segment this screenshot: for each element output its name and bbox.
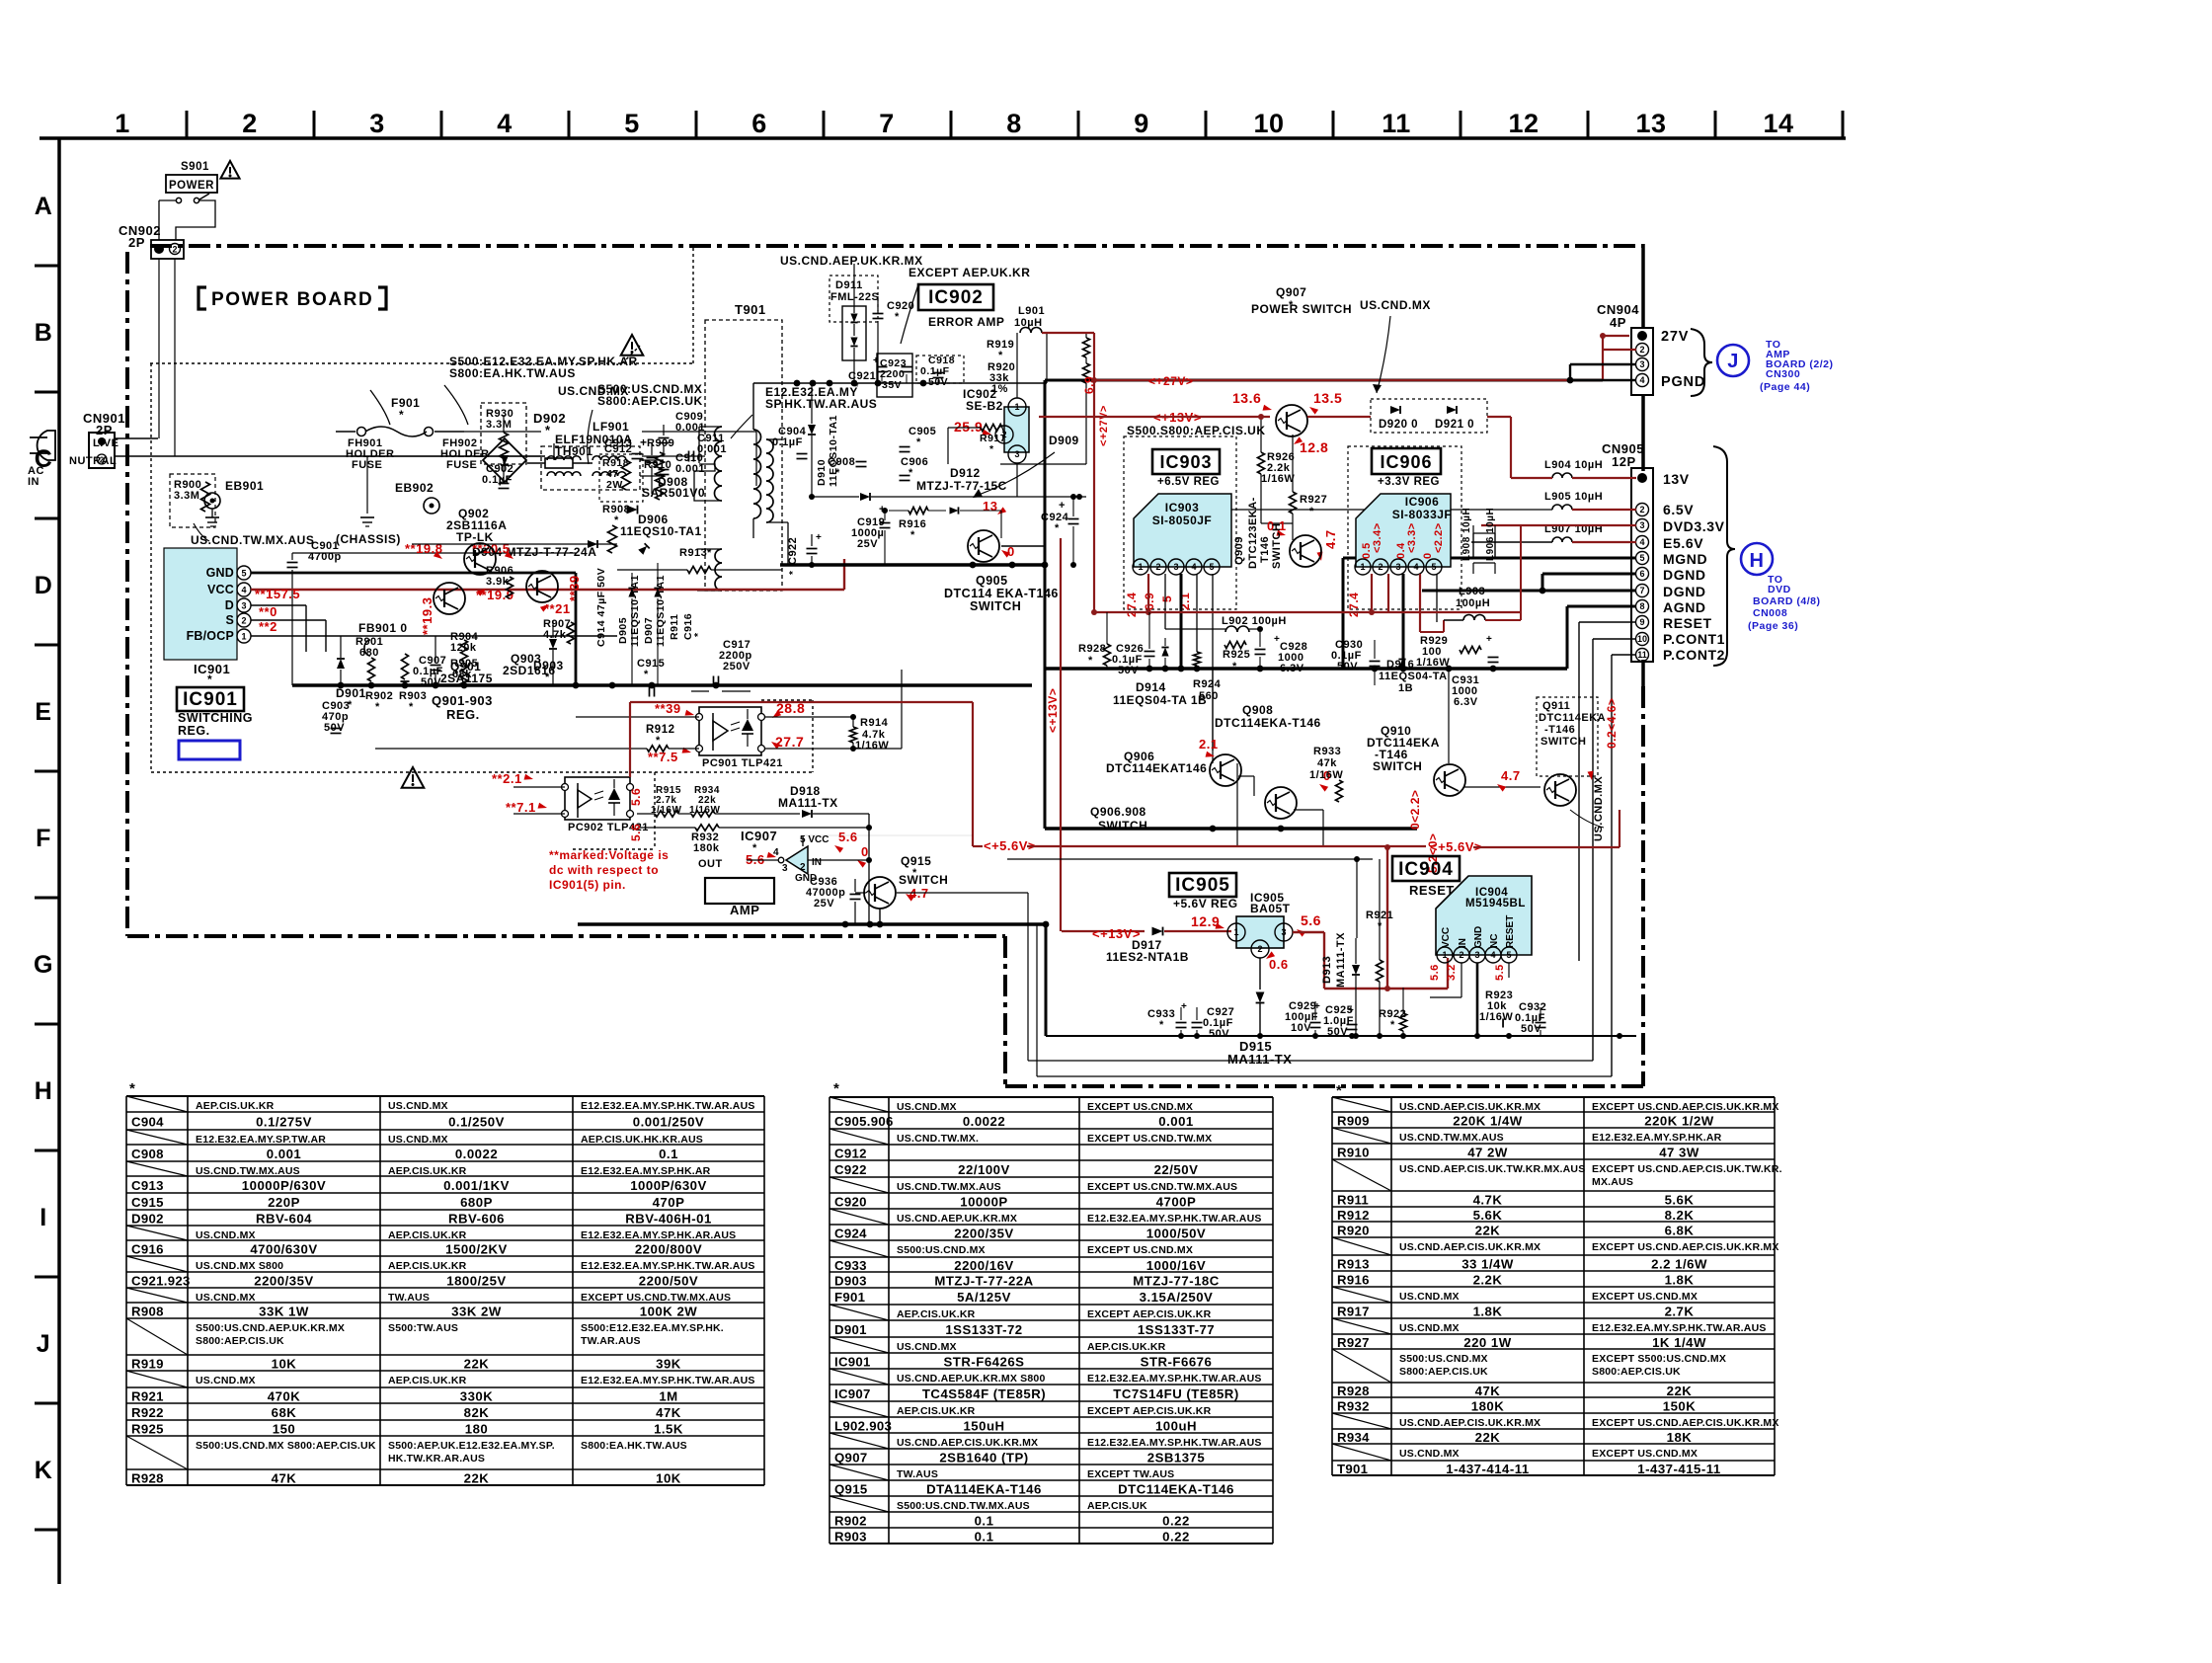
svg-text:5.6K: 5.6K [1665,1193,1695,1208]
svg-text:*: * [910,529,915,541]
svg-text:MX.AUS: MX.AUS [1592,1176,1633,1188]
svg-text:FB901 0: FB901 0 [358,621,408,635]
svg-text:S500:US.CND.AEP.UK.KR.MX: S500:US.CND.AEP.UK.KR.MX [196,1322,345,1334]
svg-text:R911: R911 [1337,1193,1369,1208]
svg-text:*: * [1088,655,1093,667]
svg-text:C921: C921 [848,370,876,382]
svg-text:3: 3 [1639,359,1644,369]
svg-text:47K: 47K [272,1471,297,1486]
svg-text:5.6: 5.6 [629,788,643,806]
svg-text:25.9: 25.9 [954,419,983,435]
svg-text:5.6: 5.6 [1301,912,1321,928]
svg-text:33K 2W: 33K 2W [451,1305,502,1319]
svg-text:SI-8050JF: SI-8050JF [1152,514,1213,527]
svg-text:*: * [854,381,859,393]
svg-text:E12.E32.EA.MY.SP.HK.TW.AR.AUS: E12.E32.EA.MY.SP.HK.TW.AR.AUS [581,1375,755,1386]
svg-text:R902: R902 [834,1514,867,1529]
svg-text:5 VCC: 5 VCC [800,834,829,845]
svg-text:1: 1 [1442,950,1447,960]
svg-text:27.4: 27.4 [1125,593,1139,617]
svg-text:MA111-TX: MA111-TX [778,796,838,810]
svg-text:S800:EA.HK.TW.AUS: S800:EA.HK.TW.AUS [581,1440,687,1452]
svg-text:K: K [35,1457,53,1484]
svg-text:C920: C920 [887,300,914,312]
svg-text:*: * [1390,1019,1395,1031]
svg-text:SWITCHING: SWITCHING [178,711,253,725]
svg-text:2: 2 [1378,562,1382,572]
svg-text:L902 100µH: L902 100µH [1222,615,1287,627]
svg-text:US.CND.MX: US.CND.MX [897,1341,957,1353]
svg-text:10K: 10K [656,1471,681,1486]
svg-text:SAR501V0: SAR501V0 [642,486,705,500]
svg-text:68K: 68K [272,1405,297,1420]
svg-text:1M: 1M [659,1389,677,1404]
svg-text:US.CND.AEP.CIS.UK.KR.MX: US.CND.AEP.CIS.UK.KR.MX [897,1437,1038,1449]
svg-text:dc with respect to: dc with respect to [549,863,659,877]
svg-text:D909: D909 [1049,434,1079,447]
svg-text:2200/50V: 2200/50V [639,1274,698,1289]
svg-text:AMP: AMP [730,903,759,917]
svg-text:C904: C904 [131,1115,164,1130]
svg-text:US.CND.MX: US.CND.MX [1399,1322,1460,1334]
svg-text:<3.4>: <3.4> [1372,522,1383,553]
svg-text:R925: R925 [131,1422,164,1437]
svg-text:*: * [545,672,550,683]
svg-text:R913: R913 [679,547,707,559]
svg-text:C915: C915 [131,1195,164,1210]
svg-text:22K: 22K [1475,1224,1501,1238]
svg-text:6.5V: 6.5V [1663,502,1694,517]
svg-text:10V: 10V [1291,1022,1311,1034]
svg-text:D920 0: D920 0 [1379,419,1418,431]
svg-text:+: + [1181,1001,1187,1012]
svg-text:11EQS04-TA 1B: 11EQS04-TA 1B [1113,693,1207,707]
svg-text:CN008: CN008 [1753,607,1787,619]
svg-text:S500.S800:AEP.CIS.UK: S500.S800:AEP.CIS.UK [1127,424,1266,437]
svg-text:US.CND.MX: US.CND.MX [1593,776,1605,841]
svg-text:(Page 44): (Page 44) [1760,381,1810,393]
svg-text:+3.3V REG: +3.3V REG [1378,476,1440,488]
svg-text:0.1/250V: 0.1/250V [448,1115,505,1130]
svg-text:AGND: AGND [1663,599,1706,615]
svg-text:0<2.2>: 0<2.2> [1408,790,1422,830]
svg-text:E12.E32.EA.MY.SP.HK.TW.AR.AUS: E12.E32.EA.MY.SP.HK.TW.AR.AUS [1592,1322,1767,1334]
svg-text:D905: D905 [617,617,629,644]
svg-text:0.1/275V: 0.1/275V [256,1115,312,1130]
svg-text:**157.5: **157.5 [255,587,300,601]
svg-text:13: 13 [983,499,997,514]
svg-text:<2.2>: <2.2> [1433,522,1445,553]
svg-text:<3.3>: <3.3> [1406,522,1418,553]
svg-text:S800:AEP.CIS.UK: S800:AEP.CIS.UK [1399,1366,1488,1378]
svg-text:F901: F901 [834,1290,865,1305]
svg-text:D901: D901 [834,1322,867,1337]
svg-text:EXCEPT US.CND.MX: EXCEPT US.CND.MX [1592,1291,1698,1303]
svg-text:R919: R919 [131,1357,164,1372]
svg-text:**19.3: **19.3 [420,597,434,635]
svg-text:FML-22S: FML-22S [830,291,879,303]
svg-text:13.6: 13.6 [1232,390,1261,406]
svg-text:D910: D910 [816,459,828,486]
svg-text:S901: S901 [181,161,209,173]
svg-text:4P: 4P [1610,315,1626,330]
svg-text:Q906.908: Q906.908 [1090,805,1146,819]
svg-text:**7.1: **7.1 [506,800,536,815]
svg-text:Q915: Q915 [834,1482,867,1497]
svg-text:C906: C906 [901,456,928,468]
svg-text:SWITCH: SWITCH [1373,759,1422,773]
svg-text:12: 12 [1508,109,1539,138]
svg-text:R909: R909 [647,437,674,449]
svg-text:100µH: 100µH [1456,597,1490,609]
svg-text:4.7k: 4.7k [543,629,567,641]
svg-text:E12.E32.EA.MY.SP.HK.TW.AR.AUS: E12.E32.EA.MY.SP.HK.TW.AR.AUS [581,1100,755,1112]
svg-text:8: 8 [1006,109,1022,138]
svg-text:2200/35V: 2200/35V [254,1274,313,1289]
svg-text:5: 5 [1431,562,1436,572]
svg-text:0.001/250V: 0.001/250V [633,1115,704,1130]
svg-text:5: 5 [1506,950,1511,960]
svg-text:50V: 50V [1327,1026,1348,1038]
svg-text:3.2: 3.2 [1446,964,1458,981]
svg-text:R927: R927 [1300,494,1327,506]
svg-text:**2: **2 [259,619,277,634]
svg-text:250V: 250V [723,661,750,673]
svg-text:47 2W: 47 2W [1467,1146,1508,1160]
svg-text:1-437-414-11: 1-437-414-11 [1446,1462,1529,1476]
svg-text:IC904: IC904 [1398,859,1454,880]
svg-text:R911: R911 [669,613,680,640]
svg-text:S500:US.CND.MX: S500:US.CND.MX [1399,1353,1488,1365]
svg-text:DTC114 EKA-T146: DTC114 EKA-T146 [944,587,1059,600]
svg-text:DTC114EKA-T146: DTC114EKA-T146 [1118,1482,1234,1497]
svg-text:27V: 27V [1661,329,1689,345]
svg-text:11EQS10-TA1: 11EQS10-TA1 [828,415,839,487]
svg-text:D907: D907 [643,617,655,644]
svg-text:H: H [35,1077,53,1105]
svg-text:NUTRAL: NUTRAL [69,455,117,467]
svg-text:*: * [614,515,619,526]
svg-text:AEP.CIS.UK.KR: AEP.CIS.UK.KR [196,1100,275,1112]
svg-text:SWITCH: SWITCH [1540,736,1586,748]
svg-text:2: 2 [241,615,246,625]
svg-text:*: * [833,1080,839,1097]
svg-text:220K 1/2W: 220K 1/2W [1644,1114,1714,1129]
svg-text:ERROR AMP: ERROR AMP [928,315,1004,329]
svg-text:E12.E32.EA.MY.SP.HK.TW.AR.AUS: E12.E32.EA.MY.SP.HK.TW.AR.AUS [1087,1213,1262,1225]
svg-text:BA05T: BA05T [1250,902,1291,915]
svg-text:G: G [34,951,53,979]
svg-text:5.6: 5.6 [629,824,643,841]
svg-text:IC901(5) pin.: IC901(5) pin. [549,878,626,892]
svg-text:AEP.CIS.UK.KR: AEP.CIS.UK.KR [897,1405,976,1417]
svg-text:680: 680 [359,647,379,659]
svg-text:MA111-TX: MA111-TX [1335,932,1347,988]
svg-text:<+27V>: <+27V> [1148,374,1193,388]
svg-text:2: 2 [1155,562,1160,572]
svg-text:VCC: VCC [1441,927,1452,948]
svg-text:1: 1 [115,109,130,138]
svg-text:*: * [1309,506,1314,517]
svg-text:35V: 35V [882,379,902,391]
svg-text:IN: IN [28,476,39,488]
svg-text:IC903: IC903 [1165,501,1200,515]
svg-text:1/16W: 1/16W [1261,473,1295,485]
svg-text:SE-B2: SE-B2 [966,399,1003,413]
svg-text:1: 1 [241,631,246,641]
svg-text:2: 2 [1257,944,1262,954]
svg-text:*: * [692,632,704,637]
svg-text:1/16W: 1/16W [1416,657,1450,669]
svg-text:4.7: 4.7 [1323,529,1338,549]
svg-text:13.5: 13.5 [1313,390,1342,406]
svg-text:4: 4 [241,585,246,594]
svg-text:+6.5V REG: +6.5V REG [1157,476,1220,488]
svg-text:R916: R916 [1337,1273,1370,1288]
svg-text:SWITCH: SWITCH [970,599,1021,613]
svg-text:1: 1 [1014,402,1019,412]
svg-text:E12.E32.EA.MY.SP.TW.AR: E12.E32.EA.MY.SP.TW.AR [196,1134,326,1146]
svg-text:D901: D901 [336,686,366,700]
svg-text:220P: 220P [268,1195,300,1210]
svg-text:POWER SWITCH: POWER SWITCH [1251,302,1352,316]
svg-text:*: * [409,701,414,713]
svg-text:50V: 50V [1337,661,1358,673]
svg-text:*: * [895,311,900,323]
svg-text:18K: 18K [1667,1430,1693,1445]
svg-text:FUSE: FUSE [446,459,477,471]
svg-text:H: H [1750,550,1765,572]
svg-text:2P: 2P [128,235,145,250]
svg-text:1/16W: 1/16W [855,740,889,752]
svg-text:IC906: IC906 [1380,452,1432,472]
svg-text:**39: **39 [567,575,582,601]
svg-text:US.CND.MX: US.CND.MX [388,1100,448,1112]
svg-text:R912: R912 [1337,1208,1370,1223]
svg-text:*: * [375,701,380,713]
svg-text:1SS133T-72: 1SS133T-72 [945,1322,1022,1337]
svg-text:MTZJ-T-77-15C: MTZJ-T-77-15C [916,479,1007,493]
svg-text:6.8K: 6.8K [1665,1224,1695,1238]
svg-text:R928: R928 [1078,643,1106,655]
svg-text:S500:US.CND.MX S800:AEP.CIS.U: S500:US.CND.MX S800:AEP.CIS.UK [196,1440,376,1452]
svg-text:*: * [1159,1019,1164,1031]
svg-text:<+13V>: <+13V> [1046,688,1060,733]
svg-text:**0: **0 [259,604,277,619]
svg-text:S500:AEP.UK.E12.E32.EA.MY.SP.: S500:AEP.UK.E12.E32.EA.MY.SP. [388,1440,555,1452]
svg-text:22/100V: 22/100V [958,1162,1010,1177]
svg-text:2: 2 [1639,505,1644,515]
svg-text:STR-F6676: STR-F6676 [1141,1355,1213,1370]
svg-text:E12.E32.EA.MY.SP.HK.AR: E12.E32.EA.MY.SP.HK.AR [1592,1132,1722,1144]
svg-text:DVD: DVD [1768,584,1791,595]
svg-text:C920: C920 [834,1195,867,1210]
svg-text:3: 3 [241,600,246,610]
svg-text:RESET: RESET [1663,615,1712,631]
svg-text:2: 2 [800,862,806,873]
svg-text:D914: D914 [1136,680,1166,694]
svg-text:180K: 180K [1471,1399,1505,1414]
svg-text:3: 3 [782,863,788,874]
svg-text:STR-F6426S: STR-F6426S [944,1355,1025,1370]
svg-text:1000P/630V: 1000P/630V [630,1178,707,1193]
svg-text:US.CND.MX S800: US.CND.MX S800 [196,1260,283,1272]
svg-text:(Page 36): (Page 36) [1748,620,1798,632]
svg-text:**21: **21 [544,601,571,616]
svg-text:E: E [35,698,51,726]
svg-text:AEP.CIS.UK.HK.KR.AUS: AEP.CIS.UK.HK.KR.AUS [581,1134,703,1146]
svg-text:C914 47µF 50V: C914 47µF 50V [595,568,607,647]
svg-text:5.5: 5.5 [1494,964,1506,981]
svg-text:0.001: 0.001 [675,463,705,475]
svg-text:US.CND.TW.MX.AUS: US.CND.TW.MX.AUS [191,533,314,547]
svg-text:4: 4 [1639,375,1644,385]
svg-text:REG.: REG. [178,724,210,738]
svg-text:US.CND.MX: US.CND.MX [1360,298,1431,312]
svg-text:3: 3 [1173,562,1178,572]
svg-text:2200/35V: 2200/35V [954,1227,1013,1241]
svg-text:11EQS10-TA1: 11EQS10-TA1 [620,524,702,538]
svg-text:D902: D902 [131,1212,164,1227]
svg-text:AEP.CIS.UK.KR: AEP.CIS.UK.KR [388,1165,467,1177]
svg-text:50V: 50V [1521,1023,1541,1035]
svg-text:50V: 50V [421,676,441,688]
svg-text:US.CND.MX: US.CND.MX [196,1292,256,1304]
svg-text:4: 4 [497,109,513,138]
svg-text:US.CND.TW.MX.AUS: US.CND.TW.MX.AUS [1399,1132,1504,1144]
svg-text:GND: GND [206,566,234,580]
svg-text:R922: R922 [131,1405,164,1420]
svg-text:2.2K: 2.2K [1473,1273,1503,1288]
svg-text:6: 6 [751,109,767,138]
svg-text:R903: R903 [834,1530,867,1544]
svg-text:3: 3 [1014,449,1019,459]
svg-text:PGND: PGND [1661,374,1705,390]
svg-text:33K 1W: 33K 1W [259,1305,309,1319]
svg-text:C905: C905 [908,426,936,437]
svg-text:L904 10µH: L904 10µH [1544,459,1603,471]
svg-text:*: * [788,571,799,575]
svg-text:S500:TW.AUS: S500:TW.AUS [388,1322,458,1334]
svg-text:*: * [207,673,212,686]
svg-text:3: 3 [1474,950,1479,960]
svg-text:-T146: -T146 [1544,724,1575,736]
svg-text:0.1: 0.1 [659,1147,678,1161]
svg-text:S800:AEP.CIS.UK: S800:AEP.CIS.UK [1592,1366,1681,1378]
svg-text:*: * [989,443,994,455]
svg-text:22K: 22K [464,1357,490,1372]
svg-text:US.CND.MX: US.CND.MX [1399,1448,1460,1460]
svg-text:R913: R913 [1337,1257,1370,1272]
svg-text:1: 1 [1360,562,1365,572]
svg-text:DTA114EKA-T146: DTA114EKA-T146 [926,1482,1042,1497]
svg-text:10: 10 [1637,634,1647,644]
svg-text:4.7K: 4.7K [1473,1193,1503,1208]
svg-text:DTC114EKAT146: DTC114EKAT146 [1106,761,1207,775]
svg-text:S500:US.CND.TW.MX.AUS: S500:US.CND.TW.MX.AUS [897,1500,1030,1512]
svg-text:12.8: 12.8 [1300,439,1328,455]
svg-text:39K: 39K [656,1357,681,1372]
svg-text:IC903: IC903 [1159,452,1212,472]
svg-text:1SS133T-77: 1SS133T-77 [1138,1322,1215,1337]
svg-text:Q907: Q907 [834,1451,867,1465]
svg-text:IC901: IC901 [183,689,238,710]
svg-text:SWITCH: SWITCH [1098,819,1147,832]
svg-text:11EQS10-TA1: 11EQS10-TA1 [629,575,641,647]
svg-text:5: 5 [1209,562,1214,572]
svg-text:3: 3 [1395,562,1400,572]
svg-text:*: * [707,547,712,559]
svg-text:(CHASSIS): (CHASSIS) [336,532,401,546]
svg-text:MTZJ-T-77-22A: MTZJ-T-77-22A [934,1274,1033,1289]
svg-text:3.15A/250V: 3.15A/250V [1140,1290,1214,1305]
svg-text:4.7: 4.7 [1501,768,1521,783]
svg-text:DTC123EKA-: DTC123EKA- [1247,497,1259,569]
svg-text:EXCEPT TW.AUS: EXCEPT TW.AUS [1087,1468,1174,1480]
svg-text:R927: R927 [1337,1335,1370,1350]
svg-text:C924: C924 [834,1227,867,1241]
svg-text:E12.E32.EA.MY.SP.HK.AR.AUS: E12.E32.EA.MY.SP.HK.AR.AUS [581,1229,736,1241]
svg-text:1000/16V: 1000/16V [1146,1258,1206,1273]
svg-text:<+27V>: <+27V> [1098,405,1110,446]
svg-text:*: * [998,350,1003,361]
svg-text:US.CND.MX: US.CND.MX [196,1375,256,1386]
svg-text:2200/16V: 2200/16V [954,1258,1013,1273]
svg-text:MTZJ-77-18C: MTZJ-77-18C [1133,1274,1220,1289]
svg-text:RESET: RESET [1505,915,1516,948]
svg-text:DTC114EKA-T146: DTC114EKA-T146 [1215,716,1321,730]
svg-text:3.3M: 3.3M [486,419,512,431]
svg-text:T901: T901 [735,302,766,317]
svg-text:2P: 2P [96,423,113,437]
svg-text:+: + [873,356,879,366]
svg-text:US.CND.MX: US.CND.MX [1399,1291,1460,1303]
svg-text:POWER: POWER [169,180,214,192]
svg-text:L905 10µH: L905 10µH [1544,491,1603,503]
svg-text:POWER BOARD: POWER BOARD [211,289,373,310]
svg-text:EXCEPT US.CND.TW.MX.AUS: EXCEPT US.CND.TW.MX.AUS [581,1292,731,1304]
svg-text:2SB1640 (TP): 2SB1640 (TP) [939,1451,1028,1465]
svg-text:TC7S14FU (TE85R): TC7S14FU (TE85R) [1113,1386,1238,1401]
svg-text:S500:US.CND.MX: S500:US.CND.MX [897,1244,986,1256]
svg-text:D913: D913 [1321,956,1333,984]
svg-text:EB901: EB901 [225,479,264,493]
svg-text:E12.E32.EA.MY.SP.HK.TW.AR.AUS: E12.E32.EA.MY.SP.HK.TW.AR.AUS [1087,1373,1262,1385]
svg-text:IC902: IC902 [928,287,984,308]
svg-text:+: + [1486,634,1492,645]
svg-text:6.3V: 6.3V [1280,663,1304,674]
svg-text:0.001: 0.001 [267,1147,302,1161]
svg-text:1/16W: 1/16W [1479,1011,1513,1023]
svg-text:FB/OCP: FB/OCP [187,629,234,643]
svg-text:US.CND.AEP.CIS.UK.KR.MX: US.CND.AEP.CIS.UK.KR.MX [1399,1417,1540,1429]
svg-text:C922: C922 [834,1162,867,1177]
svg-text:US.CND.AEP.CIS.UK.KR.MX: US.CND.AEP.CIS.UK.KR.MX [1399,1101,1540,1113]
svg-text:22K: 22K [464,1471,490,1486]
svg-text:HK.TW.KR.AR.AUS: HK.TW.KR.AR.AUS [388,1453,485,1465]
svg-text:D911: D911 [835,279,863,291]
svg-text:E12.E32.EA.MY.SP.HK.AR: E12.E32.EA.MY.SP.HK.AR [581,1165,711,1177]
svg-text:1.8K: 1.8K [1473,1305,1503,1319]
svg-text:470K: 470K [268,1389,301,1404]
svg-text:+5.6V REG: +5.6V REG [1173,897,1238,911]
svg-text:2W: 2W [606,479,623,491]
svg-text:R932: R932 [1337,1399,1370,1414]
svg-text:T146: T146 [1259,536,1271,563]
svg-text:RBV-606: RBV-606 [448,1212,505,1227]
svg-text:SWITCH: SWITCH [1271,523,1283,569]
svg-text:NC: NC [1489,934,1500,948]
